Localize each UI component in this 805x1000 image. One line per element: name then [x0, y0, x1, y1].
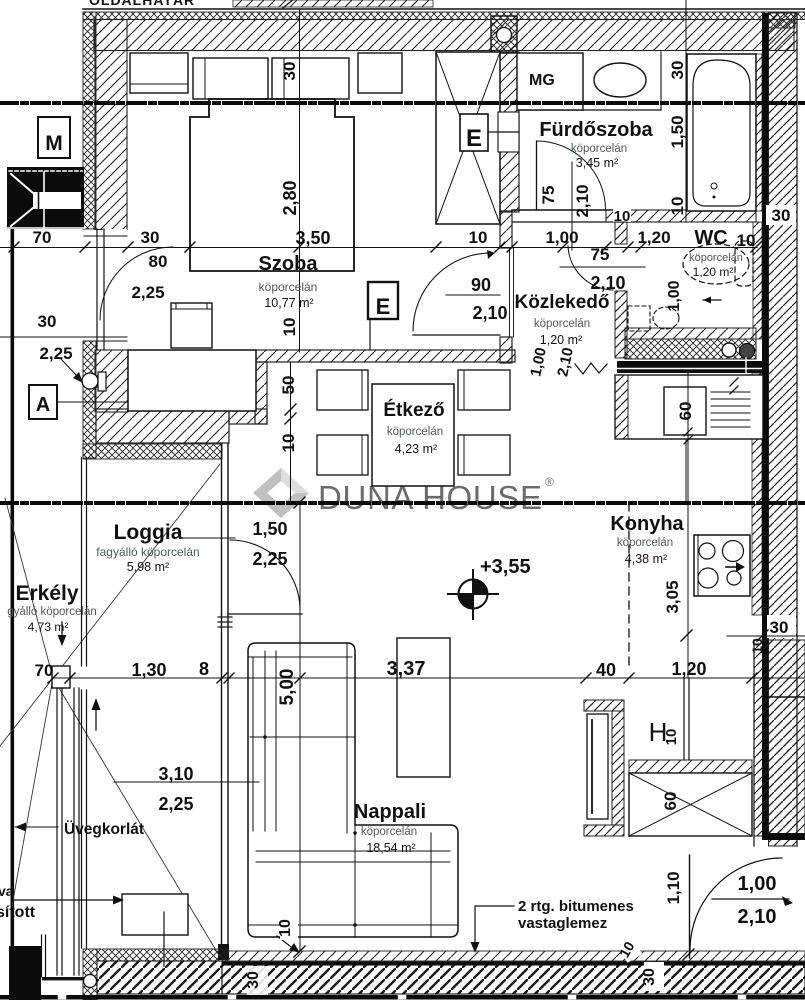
svg-text:Szoba: Szoba [259, 253, 319, 275]
bathroom door dim line [571, 162, 573, 250]
svg-text:1,00: 1,00 [738, 873, 777, 895]
svg-text:3,50: 3,50 [295, 228, 330, 248]
ticks y248 [9, 242, 761, 252]
svg-text:5,98 m²: 5,98 m² [127, 560, 169, 574]
boundary line top [83, 8, 805, 10]
loggia north wall half-depth [229, 409, 267, 424]
NE corner insulation [763, 12, 795, 28]
svg-text:10: 10 [280, 318, 299, 337]
kitchen dim ticks [730, 378, 738, 386]
dim line y10 handled, dim vline x300 upper [299, 10, 301, 352]
svg-text:30: 30 [141, 228, 160, 247]
boundary strip hatch above line [233, 0, 433, 7]
dim line y248 [0, 247, 757, 249]
svg-text:10: 10 [279, 434, 298, 453]
kitchen north black band [617, 361, 763, 373]
szoba door leaf [413, 334, 500, 336]
svg-text:5,00: 5,00 [277, 669, 298, 706]
right heavy black wall line [762, 13, 769, 840]
right outer wall hatch [769, 13, 798, 846]
entrance door leaf [689, 855, 691, 958]
szoba west door arc [100, 247, 173, 320]
svg-text:30: 30 [38, 312, 57, 331]
svg-text:1,20: 1,20 [671, 659, 706, 679]
texts: rotated wall dims bottom [644, 962, 664, 991]
wc-kitchen divider line [685, 439, 687, 503]
konyha dashed boundary [628, 503, 630, 670]
wc south wall hatch [625, 328, 756, 339]
svg-text:Étkező: Étkező [383, 399, 444, 421]
north wall insulation band [83, 12, 805, 20]
erkely loggia divider [81, 458, 83, 666]
washing machine [517, 53, 583, 110]
closet H walls [584, 700, 624, 711]
svg-text:4,23 m²: 4,23 m² [395, 442, 437, 456]
svg-text:E: E [466, 125, 482, 152]
right wall: tub-side hatch strip [753, 54, 762, 211]
shaft with X [629, 773, 752, 836]
svg-text:Fürdőszoba: Fürdőszoba [539, 119, 653, 141]
stair bottom white line [7, 227, 84, 229]
bottom property line [0, 995, 805, 1000]
svg-text:1,00: 1,00 [666, 280, 683, 311]
bath south wall lines [512, 209, 628, 211]
A box [29, 385, 57, 419]
pillow 2 [272, 58, 349, 99]
sofa corner arrow [277, 936, 295, 950]
glass railing lines [56, 688, 58, 975]
bed [190, 99, 354, 271]
stair white dotted top [9, 170, 82, 172]
svg-text:Erkély: Erkély [15, 582, 78, 605]
nightstand left [130, 53, 188, 93]
svg-text:1,00: 1,00 [545, 228, 578, 247]
szoba south wall band [254, 350, 515, 362]
svg-text:10: 10 [277, 919, 294, 937]
svg-text:Loggia: Loggia [114, 521, 183, 544]
uvegkorlat arrow [15, 826, 58, 828]
left bottom black block [9, 946, 41, 1000]
svg-text:1,20 m²: 1,20 m² [540, 333, 582, 347]
svg-text:1,20: 1,20 [637, 228, 670, 247]
south wall insulation left [97, 949, 227, 961]
svg-text:2,25: 2,25 [252, 549, 287, 569]
pillow folds [204, 58, 206, 99]
svg-text:70: 70 [35, 661, 54, 680]
svg-text:®: ® [545, 475, 554, 489]
pillow 1 [193, 58, 268, 99]
survey marker [448, 570, 498, 619]
svg-text:2,25: 2,25 [131, 283, 164, 302]
svg-text:2,10: 2,10 [472, 303, 507, 323]
loggia east wall doubled line upper [221, 444, 223, 614]
staircase black bottom [762, 833, 805, 840]
svg-text:sított: sított [0, 904, 36, 921]
dash-dot property line lower [0, 501, 805, 505]
svg-text:90: 90 [471, 275, 491, 295]
staircase inner line [768, 696, 805, 698]
up arrow below post [95, 703, 97, 730]
svg-text:60: 60 [661, 792, 680, 811]
dim line y790 [114, 781, 259, 783]
wc door arc [568, 246, 613, 290]
svg-text:Konyha: Konyha [610, 513, 684, 535]
svg-text:1,50: 1,50 [252, 519, 287, 539]
svg-text:DUNA HOUSE: DUNA HOUSE [318, 479, 542, 516]
south wall heavy hatch [97, 961, 222, 994]
kitchen dim vline [687, 373, 689, 678]
bathroom door arc [537, 141, 606, 210]
wall segment below szoba door [500, 337, 512, 363]
bitumen leader [475, 906, 514, 948]
anchor side plate [98, 372, 106, 391]
szoba sw wall hatch block [95, 350, 128, 412]
E meter niche in wall [498, 112, 519, 152]
dim vline x291 etkezo [290, 362, 292, 503]
bathroom counter [517, 109, 661, 111]
erkely diagonal 2 [53, 678, 220, 957]
svg-text:2,80: 2,80 [280, 180, 300, 215]
szoba-bath wall [498, 52, 519, 212]
right wall: kitchen-side hatch strip [752, 373, 762, 615]
kitchen band tick [745, 358, 747, 376]
svg-text:50: 50 [279, 376, 298, 395]
sofa inner lines [248, 643, 458, 937]
stair white diagonals [11, 174, 33, 193]
coffee table [397, 638, 450, 777]
svg-text:1,30: 1,30 [131, 660, 166, 680]
bathroom door leaf [536, 141, 538, 210]
west insulation strip lower [83, 341, 96, 458]
entrance door arc [690, 858, 782, 950]
chair A [317, 370, 368, 410]
dash-dot property line upper [0, 101, 805, 105]
zigzag break [575, 363, 607, 374]
svg-text:köporcelán: köporcelán [534, 318, 590, 330]
right mid dim line [727, 635, 805, 637]
svg-text:WC: WC [694, 227, 727, 249]
balcony door arc [230, 540, 300, 610]
right wall: wc-side hatch strip [753, 222, 762, 339]
west wall hatch upper [95, 20, 127, 230]
svg-text:3,10: 3,10 [158, 764, 193, 784]
shaft hatch band [629, 760, 752, 773]
svg-text:gyálló köporcelán: gyálló köporcelán [7, 606, 97, 618]
chair C [458, 370, 510, 410]
erkely diagonal 1 [0, 464, 220, 746]
stair section black block [7, 167, 84, 229]
dim vline x686 top [685, 0, 687, 222]
left boundary thick line [11, 229, 15, 1000]
stair white slot [33, 192, 81, 209]
svg-text:2 rtg. bitumenes: 2 rtg. bitumenes [518, 898, 634, 915]
szoba west window lines [96, 229, 98, 350]
chair B [317, 435, 368, 475]
chair D [458, 435, 510, 475]
svg-text:+3,55: +3,55 [480, 556, 531, 578]
wc arrow [703, 299, 721, 301]
svg-text:2,10: 2,10 [590, 273, 625, 293]
nightstand right [358, 53, 402, 93]
svg-text:4,73 m²: 4,73 m² [28, 620, 69, 634]
wc washbasin dashed [683, 244, 749, 284]
svg-text:2,25: 2,25 [39, 344, 72, 363]
svg-text:va: va [0, 883, 14, 899]
west wall insulation strip upper [83, 12, 96, 229]
dim line 75/210 bath [560, 266, 645, 268]
wc toilet dashed [628, 306, 650, 331]
A box leader [57, 401, 128, 403]
kitchen appliance lines [711, 391, 750, 393]
balcony door dim line [180, 537, 235, 539]
column circle [497, 28, 512, 43]
ticks misc [285, 404, 768, 960]
down arrow erkely [61, 622, 63, 641]
ticks y678 [48, 673, 757, 683]
svg-text:köporcelán: köporcelán [259, 280, 318, 294]
svg-text:30: 30 [668, 61, 687, 80]
svg-text:4,38 m²: 4,38 m² [625, 552, 667, 566]
svg-text:8: 8 [199, 659, 209, 679]
M box [38, 117, 70, 158]
svg-text:40: 40 [596, 660, 616, 680]
balcony door leaf [229, 613, 302, 615]
washbasin oval [594, 63, 646, 97]
svg-text:3,45 m²: 3,45 m² [576, 156, 618, 170]
svg-text:10: 10 [668, 197, 687, 216]
kitchen band white line [617, 368, 763, 370]
svg-text:A: A [36, 394, 50, 416]
svg-text:Közlekedő: Közlekedő [514, 292, 609, 313]
svg-text:10,77 m²: 10,77 m² [264, 296, 313, 310]
dim line 90/210 szoba [446, 294, 500, 296]
svg-text:30: 30 [770, 618, 789, 637]
stair white vertical [43, 172, 45, 192]
south wall thin hatch [227, 951, 805, 961]
sofa outer [248, 643, 458, 937]
closet sliding leaf [587, 714, 608, 819]
svg-text:Üvegkorlát: Üvegkorlát [64, 821, 144, 838]
bathtub inner [693, 60, 750, 206]
szoba west wall lower hatch [103, 229, 127, 350]
svg-text:10: 10 [749, 638, 765, 654]
dining table [372, 384, 454, 486]
stair slot mark [38, 192, 40, 209]
szoba door arc [413, 253, 491, 331]
loggia wall break marks [218, 616, 232, 618]
loggia east wall doubled line lower [221, 614, 223, 944]
sofa corner dots [263, 735, 267, 739]
svg-text:10: 10 [469, 228, 488, 247]
staircase left edge line [753, 640, 755, 846]
svg-text:2,10: 2,10 [573, 184, 592, 217]
railing post [52, 666, 70, 688]
svg-text:10: 10 [663, 729, 680, 746]
svg-text:Nappali: Nappali [354, 801, 426, 823]
svg-text:3,05: 3,05 [663, 580, 682, 613]
wall segment above szoba door [500, 211, 512, 248]
erkely diagonal 3 [5, 498, 53, 678]
wc wall pipe circle dark [740, 344, 755, 359]
svg-text:köporcelán: köporcelán [689, 252, 743, 264]
dim vline x300 lower [299, 503, 301, 951]
bathtub outer [687, 54, 756, 211]
svg-text:10: 10 [614, 208, 631, 225]
dim line y678 [53, 677, 805, 679]
detail box bottom left [122, 894, 188, 935]
column top [491, 16, 517, 53]
svg-text:OLDALHATÁR: OLDALHATÁR [89, 0, 195, 8]
svg-text:1,10: 1,10 [664, 871, 683, 904]
svg-text:70: 70 [33, 228, 52, 247]
loggia north insulation [83, 444, 222, 459]
svg-text:10: 10 [737, 231, 756, 250]
svg-text:fagyálló köporcelán: fagyálló köporcelán [96, 545, 199, 559]
sw corner circle [84, 975, 97, 988]
wc south wall insulation [625, 339, 756, 359]
stove [694, 535, 750, 596]
svg-text:köporcelán: köporcelán [617, 537, 673, 549]
svg-text:75: 75 [539, 186, 558, 205]
svg-text:3,37: 3,37 [387, 658, 426, 680]
svg-text:M: M [45, 132, 63, 155]
svg-text:1,20 m²: 1,20 m² [693, 265, 734, 279]
wall anchor circle [82, 373, 98, 389]
sw corner column strip [83, 949, 97, 1000]
30 label box right [766, 205, 796, 225]
dim line 1,30 [0, 336, 127, 338]
kitchen counter row [615, 375, 763, 439]
loggia wall foot block [218, 944, 229, 960]
tub drain [711, 183, 717, 189]
watermark duna house [253, 468, 554, 518]
svg-text:MG: MG [529, 72, 555, 89]
wardrobe with X [436, 52, 500, 224]
svg-text:30: 30 [280, 62, 299, 81]
svg-text:30: 30 [641, 968, 658, 986]
svg-text:30: 30 [772, 206, 791, 225]
kitchen counter pilaster hatch [615, 375, 628, 439]
svg-text:30: 30 [245, 971, 262, 989]
chair szoba [171, 303, 212, 348]
2,25 arrow leader [60, 358, 80, 379]
svg-text:2,25: 2,25 [158, 794, 193, 814]
szoba door threshold lines [509, 248, 511, 337]
loggia north wall hatch [96, 409, 229, 443]
right outer wall edge [796, 13, 798, 846]
E box 1 [460, 114, 488, 151]
svg-text:75: 75 [591, 245, 610, 264]
svg-text:80: 80 [149, 252, 168, 271]
etkezo west wall [255, 362, 267, 424]
svg-text:köporcelán: köporcelán [387, 426, 443, 438]
svg-text:köporcelán: köporcelán [571, 143, 627, 155]
svg-text:1,50: 1,50 [668, 115, 687, 148]
svg-text:60: 60 [676, 402, 695, 421]
svg-text:18,54 m²: 18,54 m² [366, 841, 415, 855]
svg-text:2,10: 2,10 [738, 906, 777, 928]
staircase block hatch [754, 640, 805, 836]
E box 2 [368, 282, 398, 319]
railing verticals upper [41, 935, 43, 977]
south wall black band [222, 962, 805, 965]
entrance dim line [712, 898, 789, 900]
wc wall pipe circle white [722, 343, 736, 357]
tick top [283, 0, 295, 8]
desk [128, 350, 256, 411]
north wall hatch [94, 20, 794, 51]
svg-text:köporcelán: köporcelán [361, 826, 417, 838]
wall below bathtub [606, 210, 756, 222]
kitchen 60 box [664, 387, 706, 435]
svg-text:vastaglemez: vastaglemez [518, 915, 607, 932]
wc west wall lower [615, 291, 627, 358]
wc west wall upper [615, 222, 627, 244]
railing bottom bar [42, 977, 84, 980]
erkely diagonal 4 [12, 678, 53, 906]
svg-text:E: E [376, 294, 391, 319]
